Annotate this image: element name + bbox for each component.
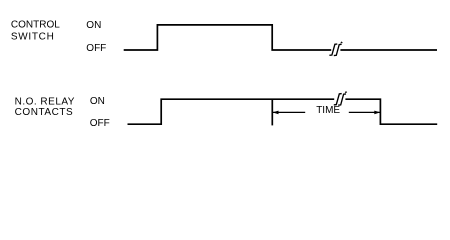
wire control-switch OFF line after time break [340, 49, 437, 51]
svg-text:SWITCH: SWITCH [11, 32, 55, 43]
wire relay-contacts ON line after break, falling edge, OFF line [345, 99, 437, 124]
wire relay-contacts OFF/ON waveform left part [128, 99, 335, 124]
svg-text:OFF: OFF [90, 118, 110, 129]
time break marks on control-switch OFF line [329, 44, 337, 55]
svg-text:OFF: OFF [86, 43, 106, 54]
wire control-switch OFF/ON/OFF waveform left part [124, 25, 332, 50]
svg-text:CONTROL: CONTROL [11, 20, 60, 31]
svg-text:CONTACTS: CONTACTS [15, 107, 74, 118]
svg-text:TIME: TIME [316, 105, 340, 116]
svg-text:N.O. RELAY: N.O. RELAY [15, 96, 75, 107]
time break marks on relay-contacts ON line [334, 94, 342, 105]
wire dimension line left segment [273, 111, 305, 113]
svg-text:ON: ON [90, 96, 105, 107]
arrowhead left (points left) [273, 111, 279, 115]
wire dimension line right segment [349, 111, 380, 113]
wire dimension extension line at switch-off instant [271, 100, 273, 126]
arrowhead right (points right) [374, 111, 380, 115]
svg-text:ON: ON [86, 20, 101, 31]
